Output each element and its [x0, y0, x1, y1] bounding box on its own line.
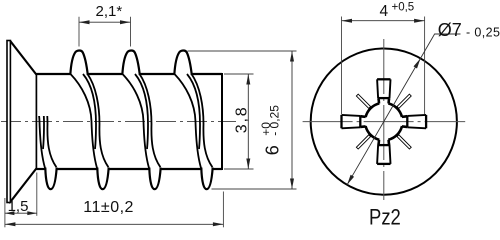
- svg-text:2,1*: 2,1*: [96, 3, 123, 20]
- svg-text:- 0,25: - 0,25: [268, 105, 282, 136]
- recess id tick 1: [397, 94, 411, 108]
- head flat face (double line): [7, 41, 10, 203]
- svg-text:Ø7: Ø7: [438, 20, 462, 40]
- dim 2,1* extension lines: [78, 17, 80, 47]
- svg-text:11±0,2: 11±0,2: [83, 199, 134, 216]
- recess id tick 4: [397, 135, 411, 149]
- svg-text:Pz2: Pz2: [369, 206, 401, 230]
- dim 11 dimension line: [5, 223, 224, 225]
- recess central circle arcs: [388, 103, 402, 117]
- thread turn 3 crest/flanks: [174, 51, 212, 190]
- recess blade 2: [402, 115, 426, 128]
- svg-text:1,5: 1,5: [8, 198, 29, 215]
- dim 4 dimension line: [342, 20, 425, 22]
- recess blade 1: [377, 79, 390, 103]
- svg-text:- 0,25: - 0,25: [466, 26, 500, 40]
- svg-text:4: 4: [380, 3, 389, 20]
- dim 6 +0/-0,25 label (rotated): [259, 105, 283, 156]
- thread turn 0 crest/flanks: [19, 74, 57, 189]
- dim diameter 7 leader line: [347, 34, 460, 185]
- dim 3,8 dimension line: [247, 74, 249, 169]
- dim 3,8 extension lines: [224, 73, 254, 75]
- svg-text:3,8: 3,8: [234, 106, 251, 134]
- head cone top edge: [10, 41, 36, 74]
- dim 1,5 extension line right: [36, 173, 38, 216]
- dim 3,8 label (rotated): [234, 106, 251, 134]
- dim 1,5 dimension line: [5, 212, 37, 214]
- dim 6 dimension line: [291, 51, 293, 189]
- body bottom silhouette segments: [36, 168, 45, 170]
- thread turn 2 crest/flanks: [122, 51, 160, 190]
- dim 1,5 left extension line (shared with 11): [4, 198, 6, 227]
- recess blade 4: [342, 115, 366, 128]
- dim 2,1* dimension line: [79, 21, 131, 23]
- horizontal centerline: [303, 121, 466, 123]
- thread turn 1 crest/flanks: [70, 51, 108, 190]
- vertical centerline: [383, 39, 385, 200]
- dim 11 right extension line: [222, 192, 224, 228]
- recess id tick 3: [356, 135, 370, 149]
- recess blade 3: [377, 140, 390, 164]
- body top silhouette segments: [36, 73, 70, 75]
- head cone base edge: [35, 75, 37, 169]
- centerline screw axis: [1, 121, 236, 123]
- dim 6 extension lines: [188, 50, 297, 52]
- svg-text:+0,5: +0,5: [392, 2, 415, 14]
- head outline circle (front view): [311, 49, 457, 195]
- svg-text:6: 6: [263, 145, 283, 155]
- head cone bottom edge: [10, 168, 36, 201]
- dim 4 extension lines: [341, 17, 343, 115]
- screw end face: [221, 73, 223, 170]
- recess id tick 2: [356, 94, 370, 108]
